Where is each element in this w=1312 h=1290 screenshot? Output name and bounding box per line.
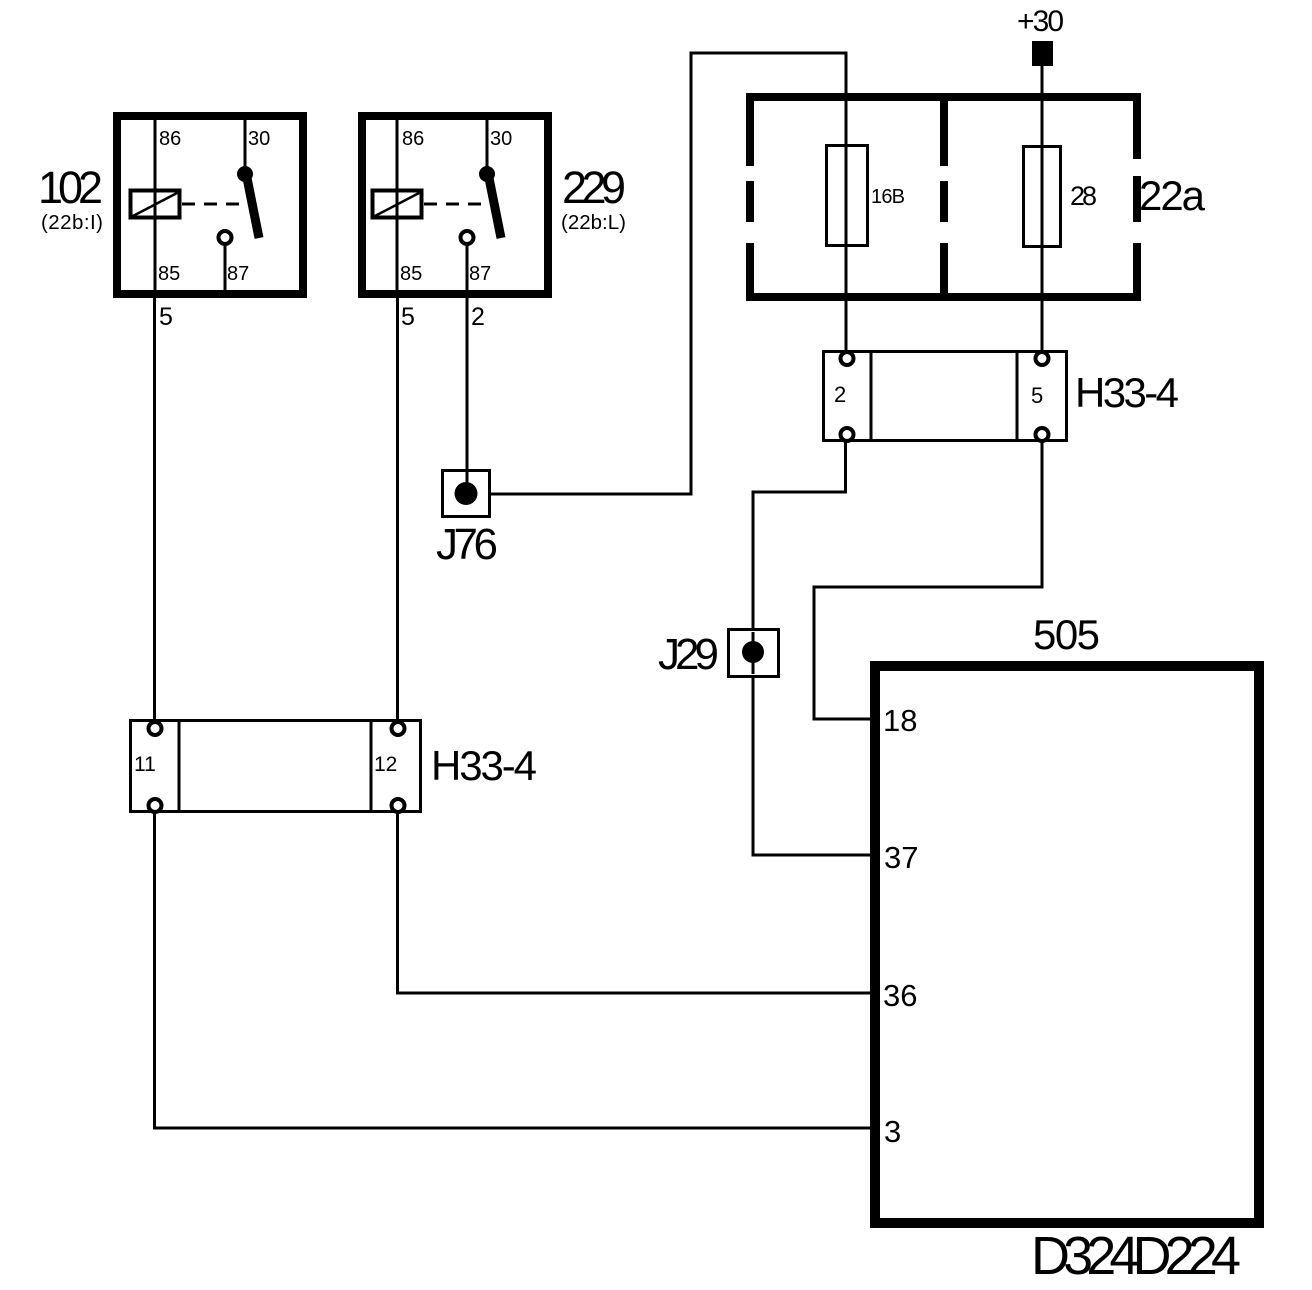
wire into 505 pin 3 — [153, 1127, 870, 1130]
relay 102 coil — [131, 191, 180, 218]
junction J76 — [443, 471, 490, 517]
wire relay229 pin87 to J76 — [466, 298, 469, 494]
relay 102 contact 87 — [219, 231, 232, 294]
wire H33-4 pin11 down — [153, 812, 156, 1130]
wire H33-4 pin5 down — [1041, 441, 1044, 589]
relay 102 pin 30 line — [244, 120, 247, 167]
svg-text:30: 30 — [248, 128, 270, 150]
H33-4 upper pin 5 terminals — [1036, 352, 1049, 441]
svg-text:87: 87 — [227, 263, 249, 285]
svg-text:5: 5 — [159, 303, 173, 331]
H33-4 lower pin 12 terminals — [392, 722, 405, 812]
svg-text:(22b:L): (22b:L) — [561, 211, 626, 234]
H33-4 upper pin 2 terminals — [841, 352, 854, 441]
relay 229 coil — [373, 191, 422, 218]
svg-text:11: 11 — [134, 753, 156, 776]
svg-text:18: 18 — [883, 703, 917, 738]
wire H33-4 pin5 leftward — [814, 586, 1044, 589]
H33-4 lower pin 11 terminals — [149, 722, 162, 812]
wire relay102 pin5 to H33-4 pin11 — [153, 298, 156, 723]
svg-text:3: 3 — [884, 1114, 901, 1149]
svg-text:(22b:I): (22b:I) — [41, 211, 103, 234]
relay 229 switch lever — [479, 166, 501, 238]
svg-text:J76: J76 — [436, 520, 498, 569]
connector H33-4 upper body — [824, 350, 1067, 442]
svg-text:505: 505 — [1033, 611, 1100, 658]
svg-text:+30: +30 — [1017, 5, 1064, 38]
wire through J29 to pin 37 — [752, 491, 755, 857]
wire into 505 pin 18 — [814, 718, 870, 721]
svg-text:36: 36 — [883, 978, 917, 1013]
relay 229 coil-switch dashed link — [424, 203, 485, 206]
relay 229 pin 86-85 line — [396, 120, 399, 294]
svg-text:2: 2 — [471, 303, 485, 331]
svg-text:37: 37 — [884, 840, 918, 875]
relay 102 body — [117, 116, 303, 294]
control unit 505 body — [875, 666, 1259, 1223]
wire J76 riser — [690, 53, 693, 496]
svg-text:H33-4: H33-4 — [1075, 369, 1179, 416]
fuse 28 wire inside — [1041, 146, 1044, 247]
svg-text:85: 85 — [400, 263, 422, 285]
wire into 505 pin 37 — [753, 854, 870, 857]
wire +30 to fuse 28 to H33-4 pin5 — [1041, 66, 1044, 352]
relay 229 contact 87 — [461, 231, 474, 294]
connector H33-4 lower body — [131, 719, 421, 813]
wire J76 to riser — [466, 493, 691, 496]
fuse 16B — [827, 146, 868, 246]
svg-text:28: 28 — [1070, 181, 1097, 211]
relay 102 coil-switch dashed link — [182, 203, 243, 206]
wire top link J76 riser to fuse 16B — [690, 52, 848, 55]
svg-text:86: 86 — [402, 128, 424, 150]
fuse 16B wire inside — [845, 145, 848, 246]
svg-text:5: 5 — [401, 303, 415, 331]
svg-text:22a: 22a — [1139, 172, 1206, 219]
wire relay229 pin5 to H33-4 pin12 — [396, 298, 399, 723]
svg-text:D324D224: D324D224 — [1031, 1226, 1241, 1286]
+30 terminal square — [1032, 41, 1053, 66]
fuse box 22a frame — [746, 93, 1141, 301]
relay 102 pin 86-85 line — [154, 120, 157, 294]
svg-text:12: 12 — [374, 753, 397, 776]
relay 102 switch lever — [237, 166, 259, 238]
relay 229 pin 30 line — [486, 120, 489, 167]
svg-text:H33-4: H33-4 — [431, 742, 537, 789]
svg-text:85: 85 — [158, 263, 180, 285]
wire H33-4 pin12 down — [396, 812, 399, 995]
svg-text:102: 102 — [38, 162, 103, 213]
svg-text:16B: 16B — [871, 186, 905, 208]
wire H33-4 pin2 down — [844, 441, 847, 492]
junction J29 — [729, 630, 779, 677]
svg-text:J29: J29 — [658, 630, 719, 679]
svg-text:229: 229 — [562, 162, 626, 213]
wire fuse 16B to H33-4 pin2 — [845, 53, 848, 352]
wire H33-4 pin2 leftward — [753, 491, 847, 494]
junction J29 wire through — [752, 632, 755, 674]
svg-text:5: 5 — [1031, 383, 1043, 408]
svg-text:30: 30 — [490, 128, 512, 150]
relay 229 body — [362, 116, 548, 294]
junction J76 top wire inside — [466, 472, 469, 493]
wire down to pin18 level — [813, 586, 816, 721]
wire into 505 pin 36 — [396, 992, 870, 995]
svg-text:2: 2 — [834, 382, 846, 407]
fuse 28 — [1024, 147, 1061, 247]
svg-text:87: 87 — [469, 263, 491, 285]
svg-text:86: 86 — [159, 128, 181, 150]
